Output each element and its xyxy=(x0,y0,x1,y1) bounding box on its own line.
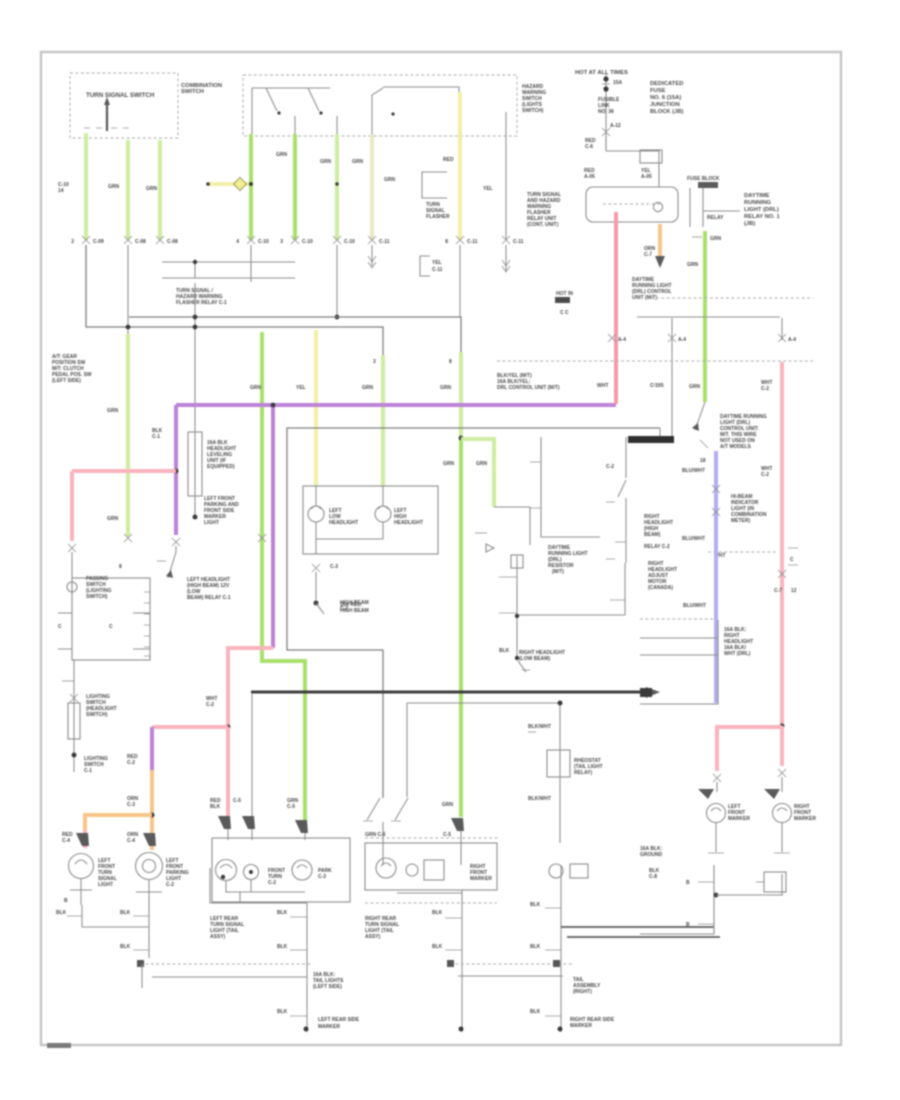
svg-text:(CONT. UNIT): (CONT. UNIT) xyxy=(527,222,559,228)
svg-text:GRN: GRN xyxy=(476,461,488,467)
wedge connector x152 xyxy=(143,833,156,846)
dashed y552 xyxy=(708,551,776,553)
svg-text:(LEFT SIDE): (LEFT SIDE) xyxy=(313,984,342,990)
headlight feed arrow xyxy=(628,436,674,443)
purple distribution wire xyxy=(176,403,616,407)
svg-text:A-4: A-4 xyxy=(618,337,626,343)
green end connector x305 xyxy=(295,820,308,833)
svg-text:(CANADA): (CANADA) xyxy=(648,585,673,591)
pink branch y727 xyxy=(717,727,782,771)
svg-text:GRN: GRN xyxy=(362,385,374,391)
svg-text:MARKER: MARKER xyxy=(470,876,492,882)
svg-text:C-4: C-4 xyxy=(127,838,135,844)
connector C at x86 xyxy=(71,236,104,245)
svg-text:C-10: C-10 xyxy=(258,239,269,245)
orange branch left xyxy=(85,815,152,830)
dimmer pole stub xyxy=(505,112,507,136)
svg-text:RED: RED xyxy=(443,157,454,163)
dark link rails to D3 xyxy=(561,926,714,928)
bus right y317 xyxy=(637,316,780,318)
svg-text:C-8: C-8 xyxy=(649,874,657,880)
wire BLU x716 xyxy=(714,451,718,703)
svg-text:LIGHT (DRL): LIGHT (DRL) xyxy=(744,207,779,213)
svg-text:UNIT (M/T): UNIT (M/T) xyxy=(632,295,657,301)
wire RED x616 xyxy=(614,212,618,404)
svg-text:C-09: C-09 xyxy=(93,239,104,245)
svg-text:C-2: C-2 xyxy=(606,464,614,470)
svg-text:BLK: BLK xyxy=(432,910,443,916)
svg-text:C-10: C-10 xyxy=(344,239,355,245)
dimmer contact low xyxy=(367,798,380,820)
svg-text:C-6: C-6 xyxy=(585,144,593,150)
svg-text:C-2: C-2 xyxy=(127,760,135,766)
svg-text:BLK: BLK xyxy=(277,1009,288,1015)
svg-text:GRN: GRN xyxy=(440,385,452,391)
flasher relay box U1 xyxy=(586,187,678,222)
svg-text:HEADLIGHT: HEADLIGHT xyxy=(394,520,423,526)
tail cluster bulbs xyxy=(549,864,563,878)
svg-text:HOT AT ALL TIMES: HOT AT ALL TIMES xyxy=(575,70,628,76)
svg-text:GRN: GRN xyxy=(320,159,332,165)
svg-text:BLK: BLK xyxy=(499,648,510,654)
svg-text:(LEFT SIDE): (LEFT SIDE) xyxy=(52,378,81,384)
svg-text:HEADLIGHT: HEADLIGHT xyxy=(329,520,358,526)
svg-text:GRN: GRN xyxy=(384,177,396,183)
svg-text:14: 14 xyxy=(58,188,64,194)
marker box outputs xyxy=(239,892,241,902)
fuse F x74 xyxy=(68,703,80,739)
svg-text:C-4: C-4 xyxy=(62,838,70,844)
bulb N1 xyxy=(376,858,396,878)
svg-text:BLK/WHT: BLK/WHT xyxy=(528,796,551,802)
svg-text:C-1: C-1 xyxy=(84,768,92,774)
svg-text:METER): METER) xyxy=(731,518,751,524)
wire PNK x782 xyxy=(780,362,784,552)
strip stub x195 xyxy=(194,262,196,278)
wire x460 drop xyxy=(459,245,461,317)
resistor block on x560 xyxy=(547,750,570,777)
strip stub x251 xyxy=(250,245,252,282)
pink main drop x228 xyxy=(226,727,230,816)
svg-text:C-2: C-2 xyxy=(761,472,769,478)
svg-text:3: 3 xyxy=(373,359,376,365)
connector C at x128 xyxy=(124,236,146,245)
switch lever wire xyxy=(106,103,108,131)
wire YEL x316 xyxy=(314,330,318,486)
DRL diode assembly xyxy=(494,507,530,545)
bus B y327 xyxy=(86,245,383,360)
svg-text:GRN: GRN xyxy=(108,184,120,190)
svg-text:C-5: C-5 xyxy=(287,804,295,810)
svg-text:GRN: GRN xyxy=(689,384,701,390)
left park/marker bulb L2 xyxy=(136,853,163,880)
svg-text:BLOCK (JB): BLOCK (JB) xyxy=(650,109,684,115)
svg-text:RELAY): RELAY) xyxy=(574,770,592,776)
svg-text:C-11: C-11 xyxy=(432,267,443,273)
wire TAN x372 xyxy=(370,134,374,240)
tail light rail x561 xyxy=(560,865,562,1032)
svg-text:C-1: C-1 xyxy=(152,434,160,440)
svg-text:SWITCH: SWITCH xyxy=(181,89,204,95)
marker sub box N xyxy=(424,860,444,880)
pink feed stub xyxy=(781,318,783,340)
svg-text:15A: 15A xyxy=(613,80,623,86)
svg-text:BLU/WHT: BLU/WHT xyxy=(682,536,705,542)
svg-text:C-5: C-5 xyxy=(443,832,451,838)
svg-text:BLU/WHT: BLU/WHT xyxy=(682,468,705,474)
svg-text:GRN: GRN xyxy=(443,461,455,467)
svg-text:(JB): (JB) xyxy=(744,221,755,227)
svg-text:MARKER: MARKER xyxy=(570,1023,592,1029)
right edge small marks xyxy=(788,548,798,565)
svg-text:GRN: GRN xyxy=(442,802,454,808)
svg-text:GRN: GRN xyxy=(107,516,119,522)
long gray feed wire W xyxy=(287,428,660,798)
flasher strip line upper xyxy=(162,261,295,263)
bulb R1 xyxy=(707,804,726,823)
svg-text:SWITCH): SWITCH) xyxy=(86,594,108,600)
svg-text:NO. 6 (15A): NO. 6 (15A) xyxy=(650,95,681,101)
bulb link wires xyxy=(316,486,383,554)
svg-text:C: C xyxy=(790,557,794,563)
wire GRN x251 xyxy=(249,134,253,240)
svg-text:BEAM): BEAM) xyxy=(644,532,661,538)
aux box top right xyxy=(640,150,662,163)
svg-text:C-11: C-11 xyxy=(379,239,390,245)
svg-text:GRN: GRN xyxy=(107,408,119,414)
svg-text:BLK: BLK xyxy=(277,910,288,916)
svg-text:(LOW BEAM): (LOW BEAM) xyxy=(519,656,550,662)
svg-text:C-2: C-2 xyxy=(268,880,276,886)
svg-text:(M/T): (M/T) xyxy=(552,569,564,575)
purple drop V3 xyxy=(150,727,154,770)
svg-text:C-3: C-3 xyxy=(318,874,326,880)
contact tick row xyxy=(84,127,129,129)
svg-text:A-05: A-05 xyxy=(584,174,595,180)
svg-text:4: 4 xyxy=(236,239,239,245)
svg-text:B: B xyxy=(686,922,690,928)
DRL resistor feed left xyxy=(541,437,600,537)
pink branch to headlight switch xyxy=(72,469,176,473)
green end connector x461 xyxy=(451,818,464,831)
ground rail left xyxy=(82,905,149,927)
svg-text:BLK: BLK xyxy=(530,1009,541,1015)
corner artifact xyxy=(47,1043,71,1048)
turn signal switch dashed box S1 xyxy=(70,73,178,138)
svg-text:YEL: YEL xyxy=(296,385,306,391)
svg-text:RUNNING: RUNNING xyxy=(744,200,772,206)
connector C at x460 xyxy=(445,236,478,245)
svg-text:GROUND: GROUND xyxy=(640,852,663,858)
indicator diamond xyxy=(234,178,247,191)
dashed separator y361 xyxy=(497,360,813,362)
wire ORN x660 xyxy=(658,224,662,258)
dimmer passing contact xyxy=(168,546,176,578)
wire GRN x383 xyxy=(381,355,385,486)
bus branch y703 xyxy=(407,703,560,843)
switch S2 feed wire xyxy=(252,88,330,134)
svg-text:8: 8 xyxy=(449,359,452,365)
svg-text:LIGHT: LIGHT xyxy=(98,882,113,888)
svg-text:BLK: BLK xyxy=(530,944,541,950)
gray drop x252 xyxy=(251,694,253,816)
svg-text:8: 8 xyxy=(119,564,122,570)
connector C at x251 xyxy=(236,236,269,245)
svg-text:C-10: C-10 xyxy=(302,239,313,245)
wedge connector x228 xyxy=(218,816,231,829)
svg-text:LIGHT: LIGHT xyxy=(204,520,219,526)
svg-text:LEFT REAR SIDE: LEFT REAR SIDE xyxy=(318,1017,360,1023)
orange wire x152 xyxy=(150,770,154,850)
svg-text:GRN: GRN xyxy=(276,152,288,158)
switch lever arrowhead xyxy=(104,97,110,105)
svg-text:HIGH BEAM: HIGH BEAM xyxy=(340,608,369,614)
svg-text:FUSE BLOCK: FUSE BLOCK xyxy=(687,176,720,182)
svg-text:18: 18 xyxy=(700,458,706,464)
svg-text:GRN: GRN xyxy=(710,236,722,242)
connector C at x372 xyxy=(368,236,390,245)
svg-text:C-08: C-08 xyxy=(167,239,178,245)
svg-text:C-08: C-08 xyxy=(135,239,146,245)
svg-text:RELAY: RELAY xyxy=(707,215,724,221)
svg-text:MARKER: MARKER xyxy=(318,1024,340,1030)
relay feed drop x672 xyxy=(671,318,673,436)
connector marks y338 xyxy=(608,334,616,342)
flasher strip line lower xyxy=(162,277,295,279)
flasher bracket component xyxy=(422,172,447,198)
wire GRN branch to DRL diode xyxy=(461,439,494,507)
wire x372 stub arrow xyxy=(371,245,373,266)
svg-text:BLK: BLK xyxy=(530,902,541,908)
svg-text:C-3: C-3 xyxy=(127,802,135,808)
wire PNK x782 lower xyxy=(780,552,784,726)
svg-text:C: C xyxy=(109,624,113,630)
left park light bulb L1 xyxy=(69,854,94,879)
svg-text:B: B xyxy=(64,898,68,904)
svg-text:SWITCH): SWITCH) xyxy=(86,712,108,718)
svg-text:BLK: BLK xyxy=(210,804,221,810)
svg-text:C-3: C-3 xyxy=(330,564,338,570)
contact stubs xyxy=(295,116,337,134)
svg-text:YEL: YEL xyxy=(432,260,442,266)
svg-text:FLASHER RELAY C-1: FLASHER RELAY C-1 xyxy=(176,300,227,306)
bulb R2 xyxy=(773,804,792,823)
switch pins xyxy=(58,613,150,649)
wire GRN x160 xyxy=(158,140,162,240)
connector row y240 xyxy=(71,236,524,245)
wire GRN x262 long xyxy=(262,332,305,820)
ground bus dashed D2 xyxy=(450,963,573,965)
svg-text:A-12: A-12 xyxy=(610,123,621,129)
svg-text:3: 3 xyxy=(280,239,283,245)
svg-text:B: B xyxy=(686,880,690,886)
wire GRN x337 xyxy=(335,134,339,240)
svg-text:MARKER: MARKER xyxy=(728,816,750,822)
svg-text:TURN SIGNAL SWITCH: TURN SIGNAL SWITCH xyxy=(86,92,155,99)
svg-text:BLK: BLK xyxy=(120,910,131,916)
pink drop x72 xyxy=(70,471,74,541)
svg-text:BEAM) RELAY C-1: BEAM) RELAY C-1 xyxy=(187,595,231,601)
svg-text:MARKER: MARKER xyxy=(794,816,816,822)
marker internal links xyxy=(226,880,305,892)
svg-text:A-05: A-05 xyxy=(641,174,652,180)
wire GRN x128 xyxy=(126,140,130,240)
svg-text:BLU/WHT: BLU/WHT xyxy=(683,603,706,609)
switch S2 contact b xyxy=(308,88,319,111)
svg-text:C-11: C-11 xyxy=(513,239,524,245)
svg-text:C: C xyxy=(58,624,62,630)
svg-text:C-5: C-5 xyxy=(233,798,241,804)
wire x506 xyxy=(505,136,507,240)
svg-text:DAYTIME: DAYTIME xyxy=(744,193,770,199)
front marker assembly box xyxy=(212,838,350,902)
svg-text:GRN: GRN xyxy=(146,186,158,192)
wire YEL x460 xyxy=(458,92,462,240)
right side marker bulbs xyxy=(698,789,714,799)
wire x506 arrow drop xyxy=(505,245,507,271)
ground bus dashed D1 xyxy=(140,963,313,965)
headlight switch box xyxy=(72,578,150,660)
switch S2 second pole wire xyxy=(372,87,459,134)
purple drop V2 xyxy=(271,405,275,648)
wire GRN x86 xyxy=(84,133,88,240)
svg-text:A-4: A-4 xyxy=(788,337,796,343)
svg-text:RELAY NO. 1: RELAY NO. 1 xyxy=(744,214,781,220)
svg-text:C-11: C-11 xyxy=(467,239,478,245)
wire x195 drop xyxy=(194,283,196,432)
wire GRN x461 long xyxy=(459,352,463,438)
svg-text:BLK: BLK xyxy=(432,944,443,950)
svg-text:2: 2 xyxy=(71,239,74,245)
switch S2 contact a xyxy=(266,88,277,111)
svg-text:ASSY): ASSY) xyxy=(210,934,226,940)
right headlight feed wire xyxy=(625,437,627,563)
connector C at x160 xyxy=(156,236,178,245)
svg-text:SWITCH): SWITCH) xyxy=(522,108,544,114)
aux flasher bracket xyxy=(420,256,430,276)
pink tail x782 xyxy=(780,726,784,766)
svg-text:BLK/WHT: BLK/WHT xyxy=(528,724,551,730)
bulb M2 xyxy=(244,865,259,880)
svg-text:8: 8 xyxy=(445,239,448,245)
svg-text:12: 12 xyxy=(791,588,797,594)
pink tail x85 xyxy=(83,830,87,848)
junction dots on buses xyxy=(193,315,198,320)
connector C at x506 xyxy=(502,236,524,245)
svg-text:C-2: C-2 xyxy=(206,702,214,708)
light switch rheostat R xyxy=(188,432,202,496)
right headlight lines xyxy=(517,556,625,660)
svg-text:A-4: A-4 xyxy=(678,337,686,343)
svg-text:GRN: GRN xyxy=(352,159,364,165)
svg-text:BLK: BLK xyxy=(56,910,67,916)
svg-text:GRN: GRN xyxy=(687,262,699,268)
svg-text:ASSY): ASSY) xyxy=(365,934,381,940)
svg-text:DEDICATED: DEDICATED xyxy=(650,81,683,87)
indicator wire YEL y184 xyxy=(207,182,249,186)
svg-text:FUSE: FUSE xyxy=(650,88,666,94)
svg-text:FLASHER: FLASHER xyxy=(426,214,450,220)
svg-text:RELAY C-2: RELAY C-2 xyxy=(644,544,670,550)
connector C at x337 xyxy=(333,236,355,245)
dashed separator y298 xyxy=(645,297,813,299)
svg-text:A/T MODELS: A/T MODELS xyxy=(720,444,751,450)
wire x337 drop to bus xyxy=(336,245,338,317)
svg-text:GRN C-5: GRN C-5 xyxy=(365,832,386,838)
bulb M1 xyxy=(216,860,237,881)
wire x128 drop xyxy=(127,245,129,342)
left headlight box xyxy=(303,486,438,554)
bulb M3 xyxy=(292,860,312,880)
D3 rear box xyxy=(640,865,714,934)
svg-text:DRL CONTROL UNIT (M/T): DRL CONTROL UNIT (M/T) xyxy=(497,385,560,391)
svg-text:(RIGHT): (RIGHT) xyxy=(573,989,592,995)
right front assembly box D2 xyxy=(365,843,497,890)
pink feed to switch xyxy=(152,725,228,729)
fuse 15A xyxy=(605,74,607,150)
svg-text:C-2: C-2 xyxy=(761,386,769,392)
purple drop V1 xyxy=(174,405,178,535)
svg-text:WHT: WHT xyxy=(597,383,608,389)
svg-text:YEL: YEL xyxy=(483,186,493,192)
wire GRN x295 xyxy=(293,134,297,240)
bulb high beam xyxy=(375,506,391,522)
dark bus y692 xyxy=(251,691,646,694)
svg-text:BLK: BLK xyxy=(277,944,288,950)
connector C at x295 xyxy=(280,236,313,245)
dashed lead-in y838 xyxy=(365,837,500,839)
pink link wire xyxy=(228,648,273,727)
wire GRN x128 mid xyxy=(126,334,130,537)
bulb N2 xyxy=(406,864,418,876)
green contact slash xyxy=(695,402,705,430)
svg-text:C-7: C-7 xyxy=(644,252,652,258)
svg-text:GRN: GRN xyxy=(250,385,262,391)
left rear lamp rail xyxy=(210,868,307,903)
headlight ground stub xyxy=(312,564,320,572)
svg-text:WHT (DRL): WHT (DRL) xyxy=(724,651,751,657)
switch stem wire xyxy=(73,660,75,772)
svg-text:C-2: C-2 xyxy=(166,882,174,888)
svg-text:C-7: C-7 xyxy=(774,588,782,594)
bus A y317 xyxy=(129,317,461,360)
right rear rail x462 xyxy=(461,890,463,1032)
wire GRN x705 xyxy=(703,231,707,402)
DRL resistor box xyxy=(640,620,718,704)
svg-text:BLK: BLK xyxy=(120,944,131,950)
wedge connector x85 xyxy=(76,833,89,846)
lighting switch dashed box S2 xyxy=(243,75,517,136)
svg-text:JUNCTION: JUNCTION xyxy=(650,102,680,108)
svg-text:NO. 36: NO. 36 xyxy=(598,109,614,115)
svg-text:C C: C C xyxy=(560,310,569,316)
bulb low beam xyxy=(308,506,324,522)
svg-text:HOT IN: HOT IN xyxy=(556,291,573,297)
svg-text:EQUIPPED): EQUIPPED) xyxy=(207,464,235,470)
fuse output wire xyxy=(606,136,659,187)
